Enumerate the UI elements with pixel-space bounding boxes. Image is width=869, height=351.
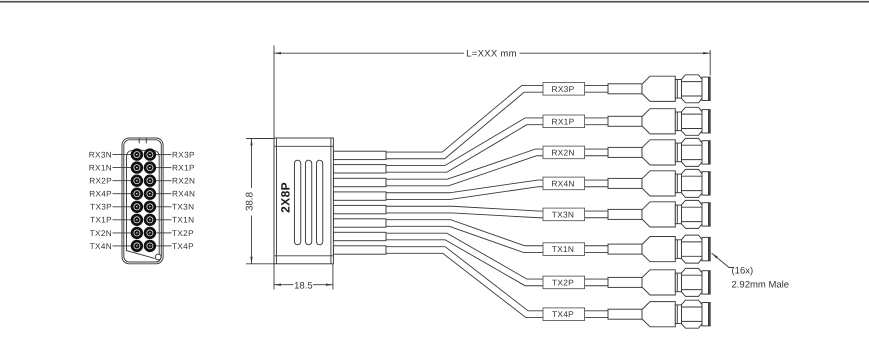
svg-text:RX3P: RX3P [172,151,195,160]
svg-text:L=XXX mm: L=XXX mm [466,48,517,59]
svg-text:TX2P: TX2P [172,229,194,238]
svg-text:RX2P: RX2P [89,177,112,186]
svg-text:2.92mm Male: 2.92mm Male [732,279,790,290]
svg-text:RX1P: RX1P [552,116,575,126]
svg-text:RX3P: RX3P [552,84,575,94]
svg-text:TX3N: TX3N [172,203,194,212]
svg-text:RX2N: RX2N [551,147,574,157]
svg-text:RX4N: RX4N [172,190,195,199]
svg-text:(16x): (16x) [732,266,754,277]
svg-text:TX4P: TX4P [172,242,194,251]
svg-text:RX4P: RX4P [89,190,112,199]
svg-text:TX2N: TX2N [90,229,112,238]
svg-text:TX3P: TX3P [90,203,112,212]
svg-text:RX2N: RX2N [172,177,195,186]
svg-text:TX1N: TX1N [172,216,194,225]
svg-text:TX2P: TX2P [552,277,574,287]
svg-text:TX1N: TX1N [552,244,574,254]
svg-text:18.5: 18.5 [294,280,313,291]
svg-text:RX1N: RX1N [89,164,112,173]
svg-text:TX4N: TX4N [90,242,112,251]
svg-text:RX1P: RX1P [172,164,195,173]
svg-text:2X8P: 2X8P [278,182,292,213]
svg-text:TX4P: TX4P [552,309,574,319]
svg-text:38.8: 38.8 [244,191,255,211]
svg-text:RX3N: RX3N [89,151,112,160]
svg-text:TX3N: TX3N [552,209,574,219]
svg-text:RX4N: RX4N [551,178,574,188]
svg-text:TX1P: TX1P [90,216,112,225]
